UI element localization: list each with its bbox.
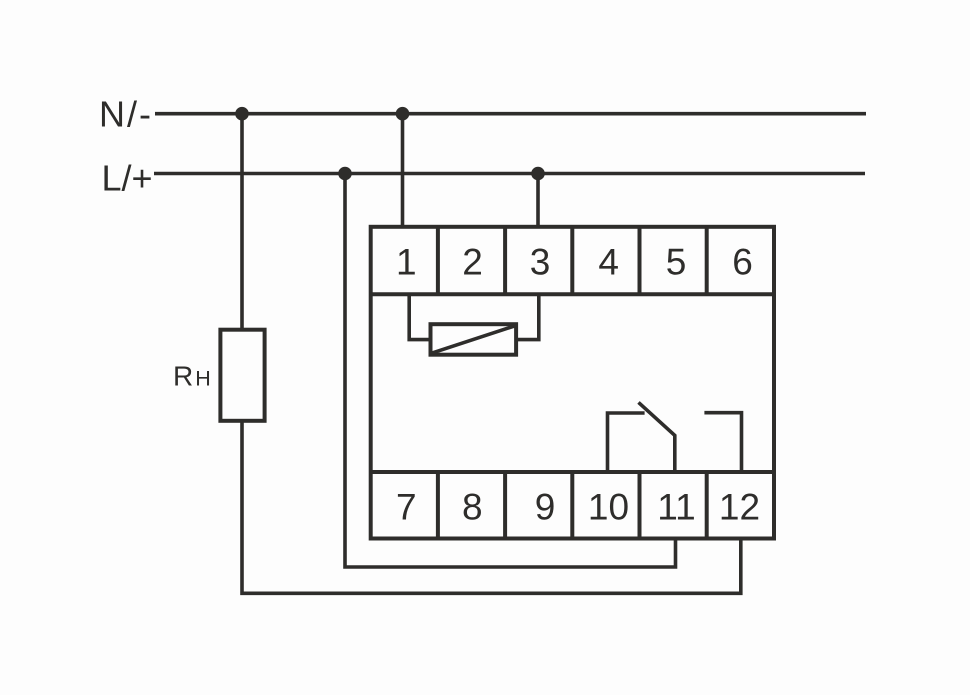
wire: L/+ supply rail xyxy=(154,172,865,176)
relay device U1 outline xyxy=(371,227,774,539)
terminal dividers top row xyxy=(438,227,707,294)
wire: L rail to terminal 3 xyxy=(536,174,540,227)
wire: terminal 1 to coil left xyxy=(409,294,430,339)
coil A1 (supply element between terminals 1 and 3) xyxy=(409,294,539,355)
svg-text:10: 10 xyxy=(588,487,629,528)
pin numbers top row 1-6 xyxy=(396,241,753,282)
relay contact K1 (terminals 10-11-12) xyxy=(608,402,742,472)
wire: resistor Rh to terminal 12 xyxy=(242,421,741,594)
svg-text:L/+: L/+ xyxy=(101,158,152,199)
svg-text:5: 5 xyxy=(666,241,687,282)
svg-text:6: 6 xyxy=(732,241,753,282)
node: junction dot on N rail at terminal 1 branch xyxy=(396,107,410,121)
node: junction dot on L rail at terminal 3 branch xyxy=(531,167,545,181)
wire: N rail to terminal 1 xyxy=(401,114,405,227)
moving contact arm to terminal 11 xyxy=(639,402,675,472)
pin numbers bottom row 7-12 xyxy=(396,487,760,528)
svg-text:N/-: N/- xyxy=(99,94,153,135)
fixed contact from terminal 10 xyxy=(608,413,645,472)
wire: L rail to terminal 11 xyxy=(345,174,676,568)
svg-text:7: 7 xyxy=(396,487,417,528)
terminal strip separator bottom xyxy=(371,470,774,474)
node: junction dot on L rail at terminal 11 branch xyxy=(338,167,352,181)
svg-text:3: 3 xyxy=(530,241,551,282)
node: junction dot on N rail at Rh branch xyxy=(235,107,249,121)
svg-text:9: 9 xyxy=(535,487,556,528)
svg-text:12: 12 xyxy=(719,487,760,528)
svg-text:2: 2 xyxy=(462,241,483,282)
svg-text:1: 1 xyxy=(396,241,417,282)
svg-text:4: 4 xyxy=(598,241,619,282)
fixed contact from terminal 12 xyxy=(704,413,741,472)
wire: N rail down to resistor Rh xyxy=(240,114,244,330)
wire: terminal 3 to coil right xyxy=(516,294,539,339)
wire: N/- supply rail xyxy=(155,112,866,116)
coil diagonal stroke xyxy=(432,326,514,353)
svg-text:8: 8 xyxy=(462,487,483,528)
coil body box xyxy=(431,324,517,355)
terminal strip separator top xyxy=(371,292,774,296)
resistor Rh (load) xyxy=(220,330,264,421)
terminal dividers bottom row xyxy=(438,472,707,539)
svg-text:11: 11 xyxy=(657,487,695,528)
